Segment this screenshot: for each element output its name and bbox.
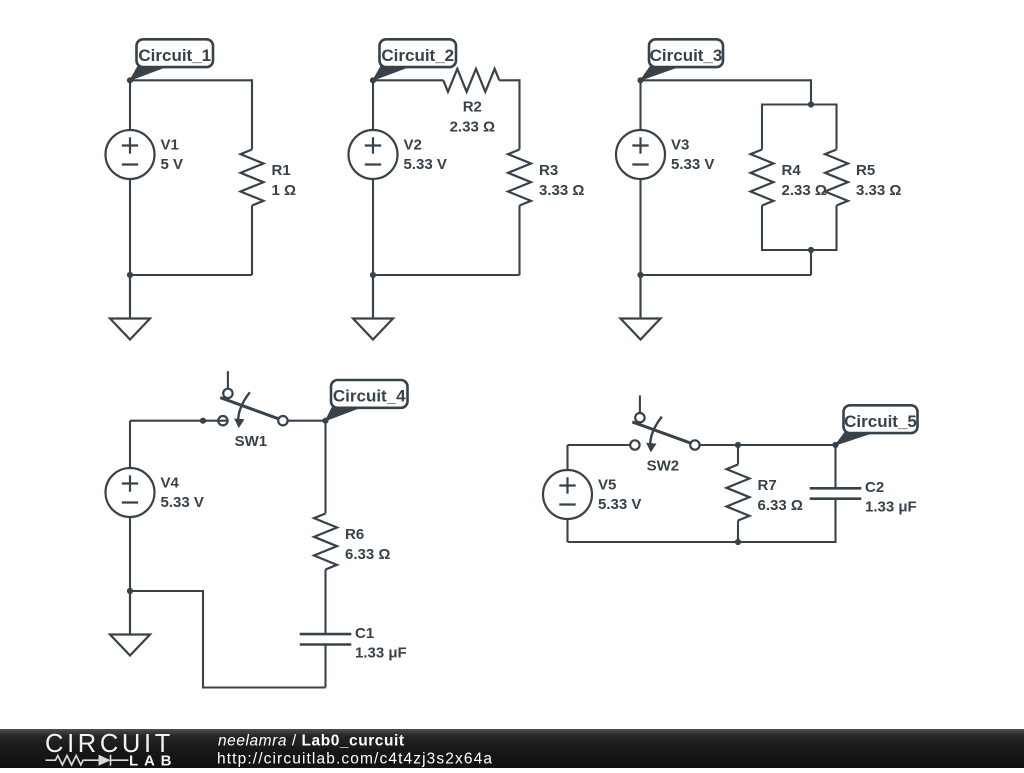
wire C2 top rail left [373,79,443,81]
voltage source V2 (5.33 V) [349,130,398,179]
svg-text:V2: V2 [404,137,422,154]
junction node at V3 bottom / ground [637,272,643,278]
wire C1 right drop [251,79,253,149]
svg-text:R6: R6 [345,526,364,543]
svg-text:6.33 Ω: 6.33 Ω [345,546,390,563]
resistor R5 (3.33 &#937;) [825,150,848,206]
svg-text:1.33 μF: 1.33 μF [865,499,917,516]
svg-text:neelamra / Lab0_curcuit: neelamra / Lab0_curcuit [218,733,404,750]
switch SW2 (SPDT) [630,395,699,452]
wire C2 left lower [372,179,374,275]
wire C5 C2 lower lead [834,499,836,543]
svg-text:3.33 Ω: 3.33 Ω [539,182,584,199]
wire C5 switch to R7 [700,444,738,446]
wire C1 right lower [251,206,253,276]
node Circuit_4 anchor [322,418,328,424]
svg-text:R3: R3 [539,162,558,179]
wire C4 left lower [129,517,131,591]
svg-text:5.33 V: 5.33 V [161,494,204,511]
ground GND4 [110,591,150,656]
wire C5 R7 upper lead [737,445,739,465]
wire C5 R7 lower lead [737,521,739,543]
wire C3 feed drop [810,79,812,104]
svg-text:V4: V4 [161,475,180,492]
wire C3 left lower [639,179,641,275]
wire C2 right drop [518,79,520,149]
node Circuit_3 anchor [637,77,643,83]
capacitor C1 (1.33 &#956;F) [300,634,352,644]
wire C5 top rail to switch [568,444,631,446]
svg-text:SW2: SW2 [647,458,680,475]
svg-text:5 V: 5 V [161,156,184,173]
capacitor C2 (1.33 &#956;F) [810,488,862,498]
svg-text:C1: C1 [355,625,374,642]
svg-text:SW1: SW1 [235,433,268,450]
svg-text:R5: R5 [856,162,875,179]
node Circuit_2 anchor [370,77,376,83]
svg-text:5.33 V: 5.33 V [404,156,447,173]
wire C3 bottom drop [810,250,812,275]
svg-text:Circuit_1: Circuit_1 [138,46,211,65]
node Circuit_5 anchor [832,442,838,448]
svg-text:Circuit_2: Circuit_2 [381,46,454,65]
junction before SW1 [200,418,206,424]
ground GND3 [621,275,661,340]
wire C5 R7 to node [738,444,836,446]
wire C5 left lower [566,519,568,542]
wire C2 bottom rail [373,274,520,276]
node Circuit_1 anchor [127,77,133,83]
svg-text:Circuit_5: Circuit_5 [844,412,917,431]
svg-text:2.33 Ω: 2.33 Ω [450,118,495,135]
svg-text:1.33 μF: 1.33 μF [355,644,407,661]
junction bottom of parallel pair [808,247,814,253]
wire C3 R5 lower lead [835,206,837,252]
wire C4 R6 to C1 [324,570,326,635]
resistor R6 (6.33 &#937;) [314,514,337,570]
node label Circuit_5 (flag) [836,405,918,445]
resistor R4 (2.33 &#937;) [751,150,774,206]
resistor R3 (3.33 &#937;) [508,150,531,206]
resistor R2 (2.33 &#937;) [443,69,499,92]
svg-text:1 Ω: 1 Ω [272,182,297,199]
svg-text:2.33 Ω: 2.33 Ω [782,182,827,199]
wire C2 top rail right [499,79,519,81]
node label Circuit_3 (flag) [641,39,724,80]
wire C3 R4 upper lead [761,104,763,150]
svg-text:6.33 Ω: 6.33 Ω [758,497,803,514]
wire C1 left lower [129,179,131,275]
svg-text:5.33 V: 5.33 V [598,496,641,513]
svg-text:LAB: LAB [129,753,173,769]
wire C4 top rail to switch [130,420,229,422]
wire C1 bottom rail [130,274,252,276]
wire C4 left upper [129,421,131,469]
footer background bar [0,729,1024,768]
svg-text:R1: R1 [272,162,291,179]
wire C3 parallel bottom bar [762,249,837,251]
wire C5 left upper [566,445,568,471]
wire C1 left upper [129,80,131,130]
svg-text:R7: R7 [758,477,777,494]
svg-text:R4: R4 [782,162,802,179]
wire C4 bottom return [130,591,326,688]
junction R7 top [735,442,741,448]
wire C5 bottom rail [568,541,837,543]
wire C4 right drop [324,421,326,514]
wire C3 parallel top bar [762,103,837,105]
voltage source V4 (5.33 V) [106,468,155,517]
wire C1 top rail [130,79,252,81]
svg-text:V3: V3 [671,137,689,154]
wire C5 C2 upper lead [834,445,836,488]
node label Circuit_4 (flag) [326,380,408,421]
svg-text:http://circuitlab.com/c4t4zj3s: http://circuitlab.com/c4t4zj3s2x64a [217,751,492,768]
svg-text:V1: V1 [161,137,179,154]
junction node at V2 bottom / ground [370,272,376,278]
svg-text:C2: C2 [865,479,884,496]
svg-text:V5: V5 [598,477,616,494]
junction top of parallel pair [808,101,814,107]
wire C3 left upper [639,80,641,130]
svg-text:5.33 V: 5.33 V [671,156,714,173]
ground GND1 [110,275,150,340]
node label Circuit_1 (flag) [130,39,213,80]
wire C4 switch to node [288,420,326,422]
voltage source V3 (5.33 V) [616,130,665,179]
wire C3 top rail [641,79,812,81]
wire C3 R5 upper lead [835,104,837,150]
svg-text:Circuit_4: Circuit_4 [333,387,406,406]
ground GND2 [353,275,393,340]
svg-text:3.33 Ω: 3.33 Ω [856,182,901,199]
resistor R7 (6.33 &#937;) [727,465,750,521]
junction node at V1 bottom / ground [127,272,133,278]
wire C4 C1 lower lead [324,645,326,688]
voltage source V5 (5.33 V) [543,470,592,519]
junction R7 bottom [735,539,741,545]
voltage source V1 (5 V) [106,130,155,179]
resistor R1 (1 &#937;) [241,150,264,206]
junction node at V4 bottom / ground [127,588,133,594]
wire C3 R4 lower lead [761,206,763,252]
svg-text:Circuit_3: Circuit_3 [650,46,723,65]
wire C2 right lower [518,206,520,276]
node label Circuit_2 (flag) [373,39,456,80]
CircuitLab logo: resistor+diode squiggle [46,755,129,766]
switch SW1 (SPDT) [218,371,287,428]
wire C2 left upper [372,80,374,130]
wire C3 bottom rail [641,274,812,276]
svg-text:R2: R2 [463,98,482,115]
